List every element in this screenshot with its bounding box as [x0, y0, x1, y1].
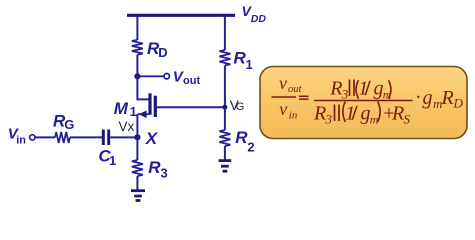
svg-text:1: 1: [246, 57, 253, 72]
formula: equals sign: [299, 96, 309, 99]
svg-text:G: G: [64, 117, 74, 132]
svg-text:M: M: [114, 99, 129, 118]
svg-text:G: G: [236, 101, 245, 113]
wire VG to R2: [224, 107, 226, 130]
R3 value label: [148, 158, 168, 181]
formula: vout/vin fraction: [272, 73, 303, 121]
svg-text:in: in: [16, 135, 26, 147]
C1 value label: [98, 147, 116, 168]
Vin label: [8, 126, 26, 147]
resistor R2: [219, 130, 230, 146]
svg-text:v: v: [279, 73, 287, 93]
resistor RG: [55, 132, 70, 143]
VDD rail: [127, 14, 235, 17]
svg-text:m: m: [370, 113, 379, 127]
wire node to Vout terminal: [137, 75, 163, 77]
svg-text:R: R: [148, 158, 161, 177]
M1 label: [114, 99, 137, 119]
resistor R3: [132, 160, 143, 176]
RD value label: [147, 39, 168, 60]
resistor RD: [132, 40, 143, 55]
svg-text:DD: DD: [251, 13, 267, 25]
svg-text:3: 3: [325, 112, 333, 127]
gate wire M1 to VG: [157, 106, 225, 108]
wire RG to C1: [70, 136, 102, 138]
wire R1 to node VG: [224, 65, 226, 107]
formula: numerator R3||(1/gm): [329, 78, 391, 102]
svg-text:·: ·: [416, 87, 421, 109]
transistor M1: [138, 93, 156, 118]
svg-text:3: 3: [161, 166, 168, 181]
wire R2 to ground: [224, 146, 226, 159]
RG value label: [53, 112, 74, 133]
svg-text:in: in: [289, 109, 298, 121]
resistor R1: [219, 50, 230, 65]
svg-text:R: R: [391, 103, 404, 125]
ground (left): [131, 191, 145, 201]
svg-text:R: R: [441, 87, 454, 109]
wire source to node X: [136, 114, 138, 137]
svg-text:X: X: [145, 129, 159, 148]
VDD label: [242, 3, 267, 25]
svg-text:D: D: [453, 96, 464, 111]
VG label: [230, 98, 245, 113]
wire C1 to node X: [110, 136, 137, 138]
wire R3 to ground: [136, 176, 138, 189]
wire RD to Vout node: [136, 55, 138, 77]
R2 value label: [235, 128, 254, 154]
node VG junction: [222, 105, 227, 110]
svg-text:S: S: [404, 112, 411, 127]
node X junction: [134, 134, 140, 140]
formula: denominator R3||(1/gm)+RS: [313, 102, 411, 127]
svg-text:1: 1: [130, 104, 137, 119]
svg-text:D: D: [158, 45, 167, 60]
wire rail to RD: [136, 15, 138, 40]
svg-text:Vx: Vx: [119, 119, 135, 134]
Vin terminal: [30, 135, 35, 140]
wire Vin to RG: [35, 136, 55, 138]
wire rail to R1: [224, 15, 226, 50]
ground (right): [219, 161, 232, 172]
svg-text:1: 1: [109, 153, 116, 168]
formula: gain factor gmRD: [416, 87, 464, 112]
wire X to R3: [136, 137, 138, 160]
svg-text:R: R: [313, 103, 326, 125]
svg-text:R: R: [235, 128, 248, 147]
Vout label: [173, 68, 201, 87]
formula box: [260, 67, 467, 139]
R1 value label: [234, 49, 253, 73]
wire Vout node to drain: [137, 76, 149, 99]
svg-text:R: R: [329, 78, 342, 100]
svg-text:v: v: [279, 99, 287, 119]
svg-text:g: g: [423, 87, 433, 109]
svg-text:out: out: [288, 84, 303, 95]
node Vout junction: [134, 73, 140, 79]
capacitor C1: [103, 130, 108, 146]
svg-text:out: out: [183, 75, 200, 87]
Vout terminal: [164, 74, 169, 79]
svg-text:2: 2: [247, 140, 254, 155]
svg-text:3: 3: [341, 87, 349, 102]
formula: main fraction bar: [314, 100, 413, 102]
